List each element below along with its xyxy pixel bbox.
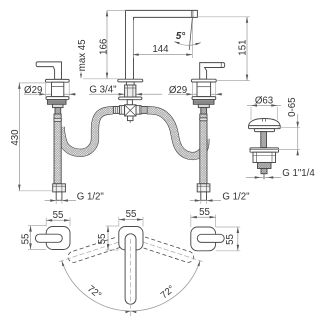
svg-text:5°: 5°: [176, 31, 185, 42]
dim Ø63 line: [247, 104, 281, 106]
dim 144 horizontal: [133, 54, 193, 56]
svg-text:G 1/2": G 1/2": [77, 191, 105, 202]
right handle lever end line: [220, 63, 222, 68]
spout shank: [126, 82, 134, 85]
drain cap lower ring: [255, 129, 275, 132]
right hose end tube: [201, 192, 207, 200]
left tube extension stubs: [55, 200, 57, 204]
dim 0-65 vertical: [297, 114, 299, 156]
svg-text:55: 55: [97, 234, 108, 245]
flex hose left curved from tee to handle: [61, 110, 113, 152]
left hose end nut G 1/2: [53, 184, 66, 192]
dim 55 left square top: [46, 219, 70, 221]
label G 3/4 leader line: [89, 93, 125, 95]
dim Ø29 left extension lines: [44, 83, 46, 97]
dim Ø29 right extension lines: [192, 83, 194, 97]
spout mounting nut G 3/4: [125, 85, 136, 97]
top view dimension arc 72 right: [131, 261, 200, 311]
top view spout plan: [125, 234, 136, 304]
top view right handle oval: [197, 234, 224, 242]
top view center mounting square: [119, 227, 143, 251]
spout lower escutcheon: [119, 97, 142, 100]
tee left adapter: [113, 107, 119, 114]
dim 166 vertical: [106, 10, 108, 78]
dim 430 vertical: [18, 83, 20, 191]
drain tail line: [263, 174, 265, 180]
svg-text:55: 55: [53, 210, 64, 221]
right hose crimp collar: [200, 118, 208, 121]
right handle body line: [197, 86, 211, 88]
dim Ø29 left handle line: [24, 93, 76, 95]
dim 55 left square side: [30, 226, 32, 250]
top view left handle oval: [35, 234, 62, 242]
svg-text:151: 151: [238, 40, 249, 56]
svg-text:G 1/2": G 1/2": [222, 191, 250, 202]
drain cap knob lines: [261, 118, 263, 121]
label G 1 1/4 leader: [246, 176, 281, 178]
svg-text:0-65: 0-65: [287, 98, 298, 117]
left supply hose straight: [54, 114, 61, 184]
tee right adapter: [141, 107, 147, 114]
left handle threaded shank: [55, 108, 61, 114]
svg-text:55: 55: [126, 209, 137, 220]
right tube extension stubs: [200, 200, 202, 204]
svg-text:55: 55: [20, 234, 31, 245]
top view right mounting square: [191, 227, 216, 251]
dim 55 right square top: [191, 216, 216, 218]
drain cap dome: [249, 119, 281, 126]
right handle body: [197, 82, 211, 97]
left handle adapter: [53, 104, 64, 107]
svg-text:G 1"1/4: G 1"1/4: [282, 168, 315, 179]
dim 55 right square side: [237, 227, 239, 251]
spout outlet lines: [190, 10, 192, 17]
deck extension line left of spout: [83, 78, 118, 80]
svg-text:max 45: max 45: [77, 39, 88, 71]
left hose crimp collar: [54, 118, 62, 121]
dim Ø29 right arrows: [187, 93, 193, 96]
tee body with cross: [125, 105, 136, 116]
dim 55 center square top: [119, 219, 143, 221]
left handle body line: [52, 86, 64, 88]
svg-text:144: 144: [152, 44, 169, 55]
flex hose right curved S-shape: [147, 110, 205, 156]
svg-text:55: 55: [199, 207, 210, 218]
drain bottom stem: [261, 169, 267, 174]
svg-text:Ø29: Ø29: [169, 85, 187, 96]
tee right nut: [136, 106, 141, 115]
drain lower threads: [258, 163, 272, 169]
left handle escutcheon: [46, 97, 69, 100]
right handle mounting nut: [193, 100, 214, 105]
right supply hose straight: [200, 114, 207, 184]
angle 5 degree arc: [174, 42, 201, 46]
drain body: [253, 152, 276, 162]
svg-text:430: 430: [10, 129, 21, 146]
right handle lever: [200, 63, 225, 80]
right hose end nut G 1/2: [197, 184, 210, 192]
svg-text:55: 55: [225, 234, 236, 245]
svg-text:G 3/4": G 3/4": [89, 84, 117, 95]
right handle escutcheon: [192, 97, 216, 100]
label G 1/2 right leader: [190, 200, 221, 202]
top view spout centerline dashed: [130, 239, 132, 318]
tee bottom tab: [128, 116, 134, 121]
left handle mounting nut: [48, 100, 67, 105]
tee left nut: [120, 106, 125, 115]
left handle base flange: [45, 79, 69, 82]
drain body flange: [250, 148, 279, 152]
right handle base flange: [191, 79, 216, 82]
drain threaded stem upper: [261, 132, 267, 148]
top view dimension arc 72 left: [62, 261, 131, 311]
dim 151 vertical: [246, 17, 248, 81]
angle 5 degree lines: [191, 17, 193, 58]
dim Ø29 left arrows: [39, 93, 45, 96]
left hose end tube: [56, 192, 62, 200]
right handle adapter: [198, 104, 209, 107]
dim 55 center square side: [107, 226, 109, 250]
svg-text:Ø29: Ø29: [24, 85, 42, 96]
dim Ø29 right handle line: [168, 93, 222, 95]
label G 3/4 arrows: [119, 93, 125, 96]
right handle threaded shank: [201, 108, 207, 114]
top view spout swing dashed position right: [142, 237, 194, 262]
spout neck: [127, 100, 132, 105]
label G 1/2 left leader: [45, 200, 76, 202]
drain cap rim: [249, 126, 281, 129]
spout escutcheon: [118, 79, 143, 82]
svg-text:Ø63: Ø63: [255, 95, 273, 106]
spout body: [126, 10, 198, 79]
left handle lever: [36, 62, 61, 80]
left handle body: [52, 82, 64, 96]
top view spout swing dashed position left: [68, 237, 120, 262]
svg-text:166: 166: [98, 39, 109, 55]
top view left mounting square: [46, 227, 70, 250]
